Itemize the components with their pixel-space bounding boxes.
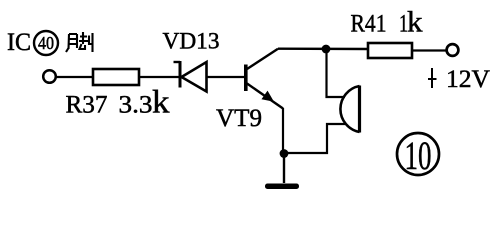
terminal (input from IC pin 40) <box>43 70 56 83</box>
node junction dot top <box>322 45 331 54</box>
resistor R41 <box>368 43 412 58</box>
transistor VT9 <box>246 49 283 109</box>
svg-text:k: k <box>407 6 423 39</box>
svg-text:10: 10 <box>405 133 432 178</box>
svg-text:VT9: VT9 <box>216 105 262 132</box>
node junction dot bottom <box>280 149 289 158</box>
wire <box>139 76 179 78</box>
speaker BL <box>340 86 359 133</box>
label +12V plus sign <box>428 68 437 88</box>
wire node to speaker top <box>327 49 346 97</box>
wire <box>56 76 93 78</box>
svg-text:40: 40 <box>38 33 54 53</box>
terminal +12V <box>447 44 459 56</box>
label 脚 (pin) hand-drawn glyph <box>66 32 93 52</box>
ground <box>265 153 299 189</box>
figure number 10 circled <box>397 133 439 178</box>
resistor R37 <box>93 69 139 85</box>
wire collector to node <box>278 48 368 51</box>
svg-text:R37: R37 <box>66 92 108 119</box>
svg-text:IC: IC <box>7 29 31 56</box>
wire speaker bottom <box>284 124 345 153</box>
svg-text:k: k <box>152 85 170 121</box>
wire emitter down <box>282 108 284 153</box>
wire <box>207 76 245 78</box>
diode VD13 <box>174 61 207 92</box>
svg-text:VD13: VD13 <box>163 29 220 54</box>
svg-text:12V: 12V <box>446 66 490 93</box>
svg-text:R41: R41 <box>351 11 387 38</box>
circled pin number 40 <box>34 31 58 55</box>
wire <box>412 49 447 51</box>
svg-text:3.3: 3.3 <box>119 92 153 119</box>
